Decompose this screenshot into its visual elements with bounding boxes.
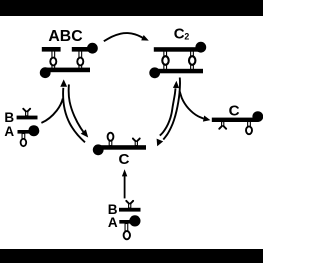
molecule B bottom [119, 200, 141, 212]
svg-text:C: C [174, 26, 185, 43]
svg-text:ABC: ABC [48, 28, 82, 45]
svg-text:C: C [229, 103, 240, 120]
svg-text:A: A [4, 124, 14, 139]
molecule C center [93, 133, 146, 156]
svg-text:C: C [119, 151, 130, 168]
svg-text:B: B [4, 110, 14, 125]
arrow C2 down to C [157, 78, 180, 147]
arrow ABC to C2 [104, 33, 149, 41]
label C2 [174, 26, 190, 43]
molecule C right [212, 111, 263, 134]
complex ABC [40, 43, 98, 78]
arrow C up to ABC [60, 79, 85, 142]
molecule A bottom [119, 215, 140, 239]
molecule A left [18, 125, 40, 146]
svg-text:A: A [108, 215, 118, 230]
arrow branch C2 to right C [180, 91, 211, 122]
molecule B left [17, 108, 38, 120]
svg-text:2: 2 [184, 32, 189, 42]
wire from A+B joining up arrow [41, 99, 62, 123]
complex C2 [149, 42, 206, 78]
arrow C up to C2 [160, 81, 179, 136]
arrow ABC down to C [69, 84, 89, 137]
arrow A+B up to C [122, 169, 127, 198]
